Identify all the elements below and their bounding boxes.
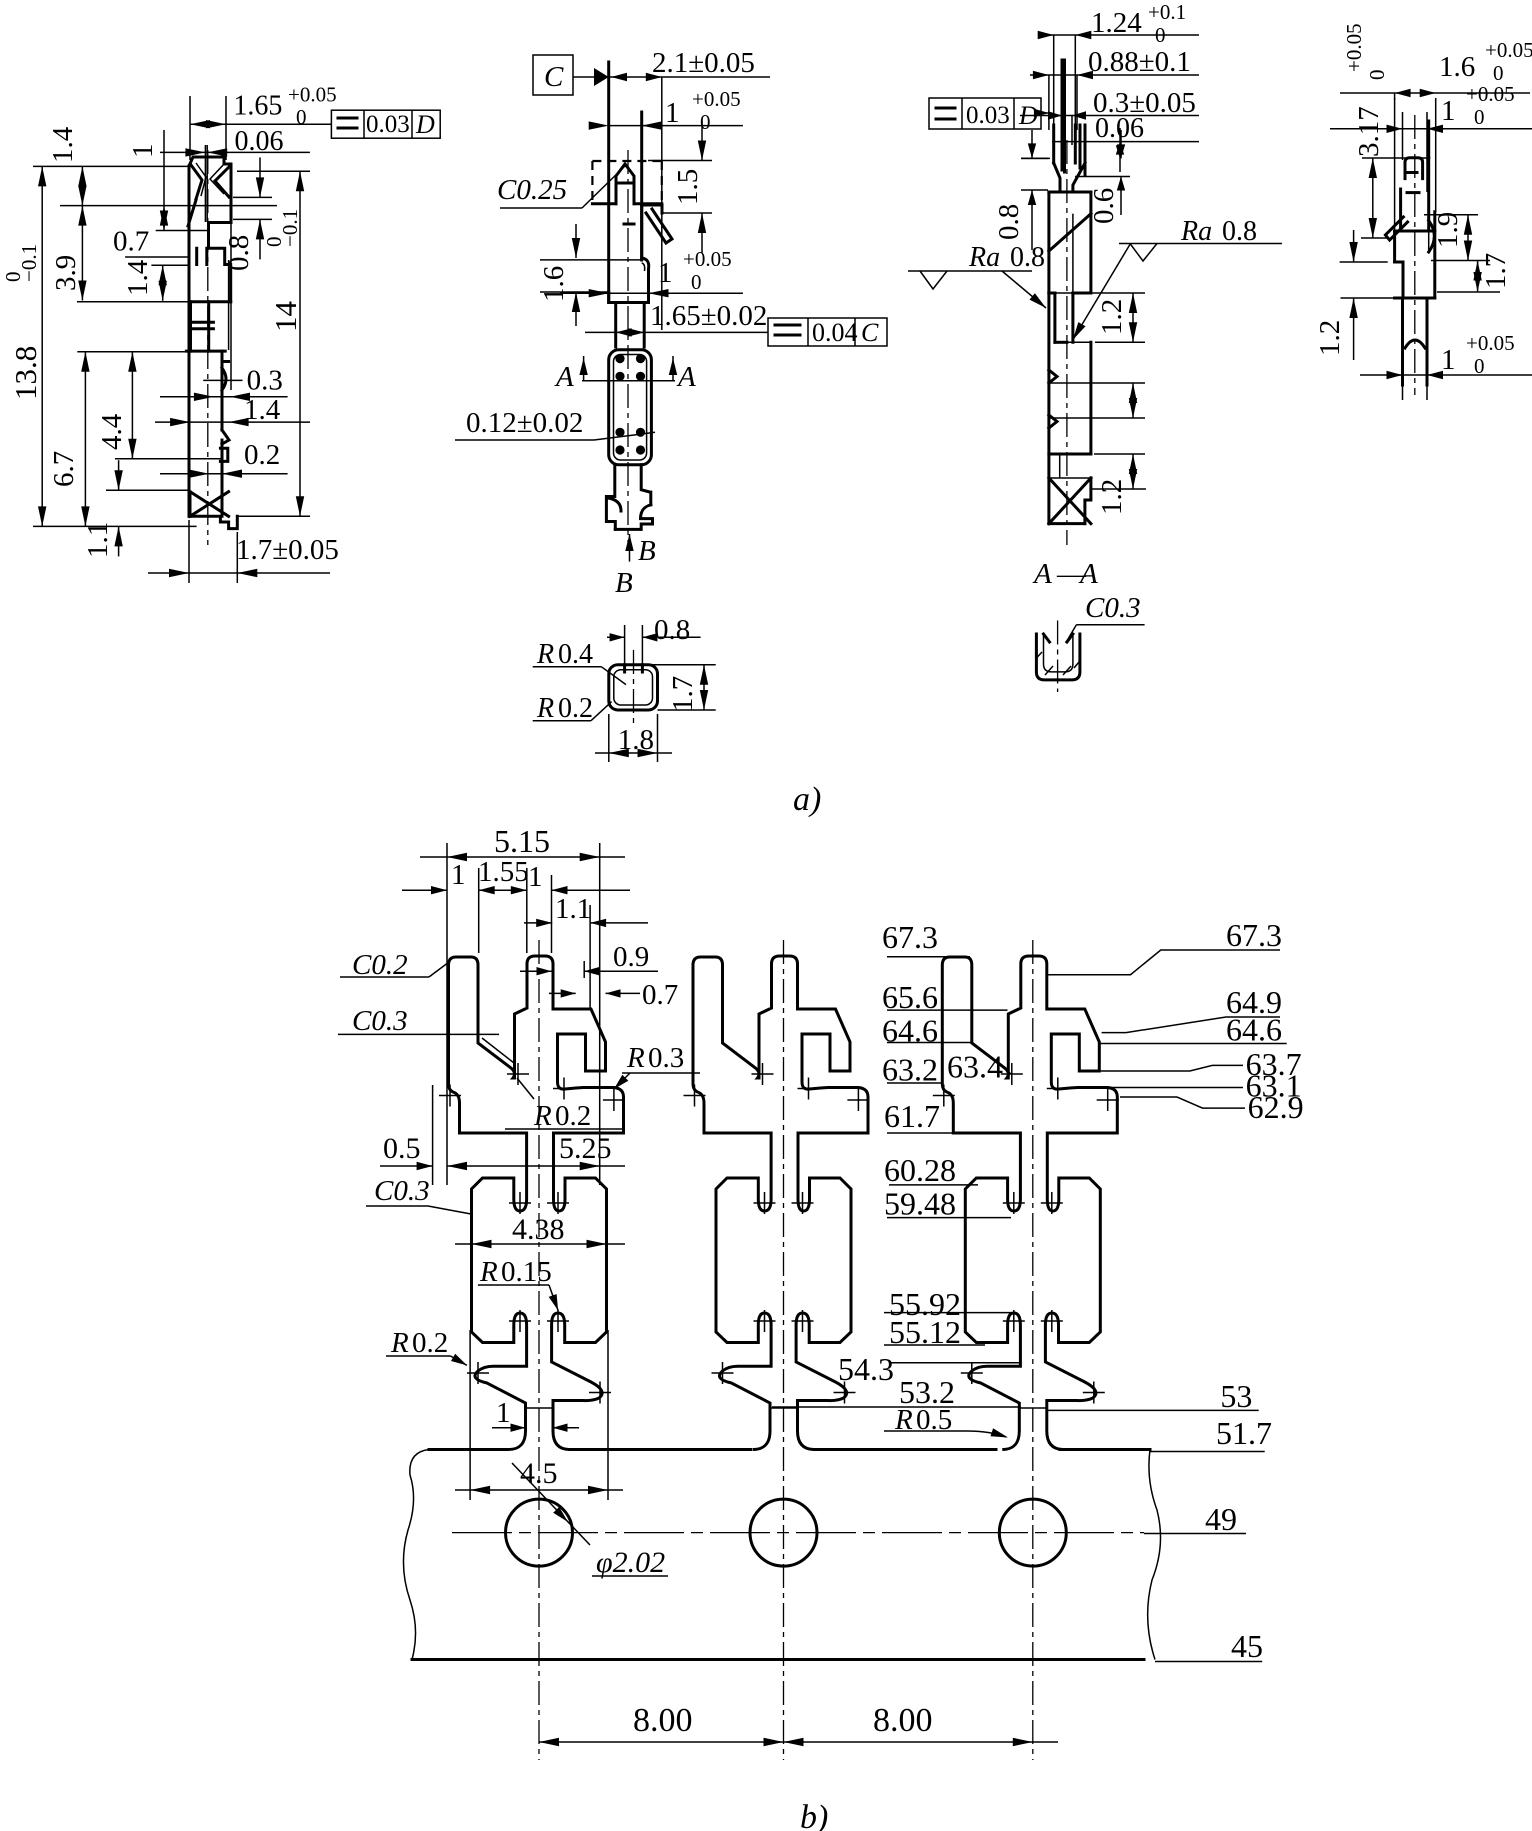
view1 terminal side profile left [188,166,191,516]
svg-text:D: D [415,110,435,139]
svg-text:1.4: 1.4 [122,259,154,296]
svg-text:0.8: 0.8 [993,204,1025,240]
svg-text:+0.05: +0.05 [288,83,337,107]
svg-text:0.15: 0.15 [501,1256,552,1288]
pilot holes phi2.02 [506,1499,573,1566]
svg-text:+0.1: +0.1 [1148,0,1186,24]
svg-text:1.2: 1.2 [1314,320,1346,356]
svg-text:+0.05: +0.05 [1485,38,1532,62]
svg-text:0: 0 [296,105,307,129]
svg-text:0.8: 0.8 [1010,242,1045,273]
svg-text:0.9: 0.9 [613,941,649,973]
svg-text:54.3: 54.3 [838,1351,894,1387]
svg-text:1: 1 [127,144,159,159]
svg-text:0.3: 0.3 [247,364,283,396]
svg-text:Ra: Ra [1180,216,1212,247]
svg-text:0: 0 [1474,105,1485,129]
svg-text:A: A [1078,558,1098,590]
svg-text:−0.1: −0.1 [278,209,302,247]
svg-text:5.25: 5.25 [559,1132,612,1165]
strip top edge [429,1448,1150,1451]
svg-text:63.2: 63.2 [882,1051,938,1087]
strip right break line [1148,1450,1161,1660]
svg-text:0.7: 0.7 [113,226,149,258]
svg-text:59.48: 59.48 [884,1185,956,1221]
view1 dim 1.65 +0.05/0 with datum frame [190,123,331,125]
svg-text:C0.3: C0.3 [1085,592,1141,624]
svg-text:8.00: 8.00 [873,1702,933,1739]
svg-text:4.4: 4.4 [96,413,128,450]
svg-text:+0.05: +0.05 [1342,23,1366,72]
terminal 2 [684,940,870,1760]
terminal 3 [933,940,1119,1760]
svg-text:2.1±0.05: 2.1±0.05 [652,47,755,79]
svg-text:5.15: 5.15 [494,823,550,859]
svg-text:a): a) [793,781,821,818]
svg-text:R: R [626,1042,645,1074]
svg-text:1.4: 1.4 [47,126,79,163]
svg-text:C0.3: C0.3 [352,1005,408,1037]
svg-text:φ2.02: φ2.02 [596,1546,665,1579]
svg-text:0.03: 0.03 [366,111,410,138]
svg-text:R: R [479,1256,498,1288]
svg-text:60.28: 60.28 [884,1152,956,1188]
svg-text:b): b) [800,1799,828,1831]
svg-text:67.3: 67.3 [1226,917,1282,953]
svg-text:0.88±0.1: 0.88±0.1 [1088,46,1191,78]
svg-text:62.9: 62.9 [1248,1089,1304,1125]
svg-text:C0.2: C0.2 [352,949,408,981]
svg-text:1.2: 1.2 [1096,479,1128,515]
svg-text:0.8: 0.8 [223,235,255,271]
svg-text:+0.05: +0.05 [683,247,732,271]
part b top dimensions [446,843,448,1185]
svg-text:R: R [390,1327,409,1359]
svg-text:1.1: 1.1 [555,893,591,925]
svg-text:1: 1 [496,1397,511,1429]
svg-text:0.2: 0.2 [244,439,280,471]
svg-text:0: 0 [1365,70,1389,81]
svg-text:1.6: 1.6 [538,266,570,302]
svg-text:0.2: 0.2 [555,1100,591,1132]
svg-text:45: 45 [1231,1628,1263,1664]
svg-text:4.38: 4.38 [512,1213,565,1246]
view1 left dims 13.8 3.9 1.4 6.7 4.4 1.1 1 0.7 1.4b [33,165,190,167]
svg-text:A: A [676,361,696,393]
svg-text:1: 1 [1441,344,1456,376]
svg-text:B: B [638,535,656,567]
svg-text:63.4: 63.4 [947,1049,1003,1085]
svg-text:1.2: 1.2 [1096,299,1128,335]
svg-text:C: C [861,318,879,347]
strip bottom edge [412,1658,1144,1661]
svg-text:1.7: 1.7 [1480,253,1512,289]
svg-text:+0.05: +0.05 [1466,331,1515,355]
svg-text:0.7: 0.7 [642,979,678,1011]
svg-text:14: 14 [268,301,303,333]
svg-text:1.4: 1.4 [244,394,281,426]
svg-text:B: B [615,567,633,599]
svg-text:53: 53 [1220,1378,1252,1414]
svg-text:Ra: Ra [968,242,1000,273]
view4 terminal opposite side profile [1427,121,1430,158]
svg-text:A: A [1032,558,1052,590]
svg-text:C0.25: C0.25 [497,174,567,206]
svg-text:0.8: 0.8 [654,614,690,646]
svg-text:A: A [554,361,574,393]
svg-text:0.3: 0.3 [648,1042,684,1074]
svg-text:49: 49 [1205,1501,1237,1537]
svg-text:64.6: 64.6 [1226,1012,1282,1048]
svg-text:C0.3: C0.3 [374,1175,430,1207]
svg-text:1.7±0.05: 1.7±0.05 [236,534,339,566]
svg-text:1.24: 1.24 [1091,7,1142,39]
svg-text:+0.05: +0.05 [1466,82,1515,106]
svg-text:1: 1 [451,859,466,891]
svg-text:0.06: 0.06 [235,126,284,157]
svg-text:1: 1 [665,97,680,129]
svg-text:0.12±0.02: 0.12±0.02 [466,407,583,439]
svg-text:1: 1 [1441,95,1456,127]
svg-text:1.1: 1.1 [82,522,114,558]
svg-text:61.7: 61.7 [884,1098,940,1134]
svg-text:1.9: 1.9 [1432,212,1464,248]
svg-text:1: 1 [528,861,543,893]
strip left break line [403,1450,429,1660]
svg-text:0.2: 0.2 [412,1327,448,1359]
svg-text:0.03: 0.03 [966,102,1010,129]
svg-text:1.55: 1.55 [478,856,529,888]
svg-text:0.8: 0.8 [1222,216,1257,247]
part b terminal template [439,940,625,1760]
svg-text:R: R [536,639,554,670]
svg-text:0.5: 0.5 [383,1132,421,1165]
svg-text:1: 1 [658,257,673,289]
svg-text:1.65: 1.65 [233,91,282,122]
svg-text:8.00: 8.00 [633,1702,693,1739]
svg-text:0.6: 0.6 [1088,188,1120,224]
svg-text:C: C [544,61,564,93]
view1 dim 0.06 [185,151,310,153]
svg-text:0: 0 [691,270,702,294]
svg-text:13.8: 13.8 [8,346,43,400]
svg-text:0.04: 0.04 [812,318,858,347]
svg-text:−0.1: −0.1 [17,244,41,282]
svg-text:1.7: 1.7 [667,676,699,712]
svg-text:R: R [533,1100,552,1132]
svg-text:1.5: 1.5 [672,169,704,205]
svg-text:51.7: 51.7 [1216,1415,1272,1451]
svg-text:4.5: 4.5 [520,1457,558,1490]
svg-text:6.7: 6.7 [48,451,80,487]
svg-text:3.17: 3.17 [1353,106,1385,157]
svg-text:67.3: 67.3 [882,919,938,955]
view3 terminal back profile [1054,60,1085,175]
svg-text:1.65±0.02: 1.65±0.02 [650,300,767,332]
svg-text:+0.05: +0.05 [692,87,741,111]
svg-text:1.6: 1.6 [1439,51,1475,83]
svg-text:R: R [536,693,554,724]
svg-text:3.9: 3.9 [50,255,82,291]
view2 terminal front profile with section A-A marks [533,55,573,95]
svg-text:0.2: 0.2 [558,693,593,724]
svg-text:0.4: 0.4 [558,639,593,670]
